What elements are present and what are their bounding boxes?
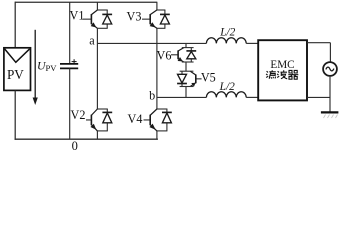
transistor V4: gate lead [144,119,151,121]
transistor V6: emitter with arrow [178,59,184,62]
AC grid source [323,62,337,76]
PV chevron [5,49,30,62]
wire: leg B bottom stub [156,131,158,139]
svg-text:b: b [149,88,155,102]
cell V3: bottom mini-rail [156,27,165,29]
svg-text:V1: V1 [70,9,85,23]
wire: left rail upper segment [14,2,16,49]
capacitor + polarity mark [72,61,77,63]
wire: left rail lower segment [14,90,16,139]
transistor V5: collector [190,71,196,75]
wire: leg A top stub [96,2,98,10]
transistor V3: base bar [149,14,151,24]
svg-text:EMC: EMC [270,59,294,71]
cell V1: top mini-rail [97,9,108,11]
cell V4: bottom mini-rail [156,130,167,132]
diode of V3 (antiparallel) [164,10,166,28]
transistor V2: base bar [90,115,92,126]
cell V3: top mini-rail [156,9,165,11]
transistor V1: collector [91,10,97,15]
cell V2: bottom mini-rail [97,130,108,132]
wire: a-rail to inductor [97,42,206,44]
cell V2: top mini-rail [97,108,108,110]
transistor V5: emitter with arrow [190,83,196,87]
滤波器 text (drawn glyphs) [266,70,298,79]
inductor L/2 top [206,38,246,44]
U_PV voltage arrow [34,30,36,100]
svg-text:L/2: L/2 [219,26,235,38]
wire: EMC box to AC source (top) [307,42,330,44]
wire: leg B middle (node b) [156,28,158,109]
transistor V2: collector [91,109,97,115]
wire: bottom DC rail (node 0 rail) [15,138,158,140]
transistor V1: emitter with arrow [91,24,97,29]
cell V6: top mini-rail [182,47,194,49]
transistor V1: gate lead [83,18,92,20]
transistor V5: base bar [195,74,197,83]
svg-text:V6: V6 [157,48,172,62]
transistor V4: collector [150,109,157,115]
diode of V2 (antiparallel) [106,109,108,131]
cell V5: top mini-rail [180,70,194,72]
diode of V4 (antiparallel) [166,109,168,131]
diode of V1 (antiparallel) [106,10,108,28]
cell V6: bottom mini-rail [182,61,194,63]
cell V5: bottom mini-rail [180,86,194,88]
svg-text:V2: V2 [71,108,86,122]
wire: b-rail to inductor [157,96,207,98]
transistor V2: gate lead [86,119,91,121]
AC source sine mark [326,67,334,71]
wire: bottom coil to EMC box [246,96,258,98]
ground symbol [321,111,339,113]
svg-text:V3: V3 [127,9,142,23]
wire: leg A bottom stub [96,131,98,139]
wire: branch stub a-rail to V6 [185,43,187,47]
cell V1: bottom mini-rail [97,27,108,29]
transistor V2: emitter with arrow [91,125,97,131]
transistor V4: base bar [149,115,151,126]
transistor V6: collector [178,48,184,51]
wire: stub V6 to V5 [185,62,187,71]
svg-text:V5: V5 [201,71,216,85]
wire: leg A middle (node a) [96,28,98,109]
PV source box [4,48,31,91]
transistor V4: emitter with arrow [150,125,157,131]
diode of V5 (antiparallel) [181,71,183,86]
svg-text:V4: V4 [128,112,143,126]
capacitor C: top lead [69,2,71,64]
wire: stub V5 to b-rail [185,87,187,98]
transistor V1: base bar [90,14,92,24]
cell V4: top mini-rail [156,108,167,110]
svg-text:PV: PV [7,67,24,82]
wire: leg B top stub [156,2,158,10]
svg-text:a: a [89,33,95,47]
wire: EMC box bottom to ground wire [307,96,330,98]
svg-text:0: 0 [72,139,78,153]
transistor V3: gate lead [142,18,150,20]
transistor V3: collector [150,10,157,15]
transistor V3: emitter with arrow [150,24,157,29]
wire: top DC rail [15,1,157,3]
capacitor C: bottom lead [69,68,71,139]
EMC filter box [258,40,307,100]
wire: top coil to EMC box [246,42,258,44]
inductor L/2 bottom [206,92,246,98]
transistor V6: gate lead [171,54,178,56]
transistor V5: gate lead [196,78,202,80]
transistor V6: base bar [177,50,179,59]
wire: AC source down to ground [329,76,331,112]
svg-text:L/2: L/2 [219,81,235,93]
diode of V6 (antiparallel) [190,48,192,62]
capacitor C: plates [60,63,78,65]
